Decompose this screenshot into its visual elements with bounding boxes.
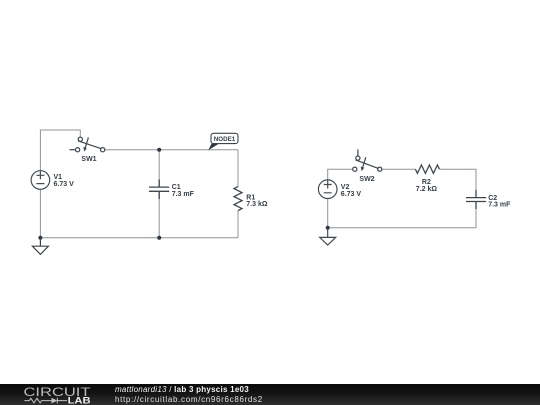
svg-text:7.2 kΩ: 7.2 kΩ (416, 186, 438, 193)
voltage source V1 (31, 171, 50, 190)
node NODE1 label box (211, 133, 238, 143)
ground left (32, 238, 48, 255)
wire SW1 right terminal to R1 top corner (105, 149, 238, 151)
junction dot bottom C1 (157, 236, 161, 240)
voltage source V2 (318, 180, 337, 199)
junction dot top C1 (157, 148, 161, 152)
junction dot V2 ground (326, 226, 330, 230)
label R1 value (246, 194, 268, 208)
junction dot V1 ground (38, 236, 42, 240)
capacitor C1 (149, 180, 169, 200)
ground right (320, 228, 336, 245)
wire C2 bottom (475, 202, 477, 228)
label C1 value (172, 184, 195, 198)
resistor R1 (234, 187, 242, 211)
svg-text:SW2: SW2 (359, 176, 374, 183)
capacitor C2 (466, 190, 486, 209)
wire C1 branch vertical (158, 150, 160, 238)
label C2 value (488, 195, 511, 209)
svg-text:7.3 kΩ: 7.3 kΩ (246, 201, 268, 208)
node NODE1 callout pointer (208, 143, 219, 150)
svg-text:LAB: LAB (68, 395, 91, 405)
switch SW1 (70, 137, 105, 152)
svg-text:6.73 V: 6.73 V (341, 191, 362, 198)
wire bottom rail right circuit (328, 227, 476, 229)
wire R1 branch vertical (237, 150, 239, 238)
footer attribution line 1 (115, 385, 249, 394)
svg-text:SW1: SW1 (81, 156, 96, 163)
SW2 arrow head (361, 167, 365, 172)
CircuitLab logo (0, 384, 110, 405)
label V2 value (341, 184, 362, 198)
wire bottom rail left circuit (40, 237, 238, 239)
wire R2 to C2 corner (439, 169, 476, 190)
SW1 arrow head (83, 147, 87, 152)
svg-text:NODE1: NODE1 (214, 136, 236, 143)
svg-text:6.73 V: 6.73 V (54, 181, 75, 188)
wire V1 bottom (39, 189, 41, 237)
label R2 value (416, 179, 438, 193)
svg-text:7.3 mF: 7.3 mF (172, 191, 195, 198)
resistor R2 (415, 165, 439, 173)
footer url line 2 (115, 395, 263, 404)
wire V2 top to SW2 left terminal (328, 169, 353, 180)
wire V2 bottom (327, 199, 329, 228)
label V1 value (54, 174, 75, 188)
footer bar (0, 384, 540, 405)
switch SW2 (353, 149, 382, 171)
svg-text:7.3 mF: 7.3 mF (488, 202, 511, 209)
wire V1 top to SW1 top terminal (40, 130, 80, 171)
wire SW2 right terminal to R2 (382, 168, 416, 170)
